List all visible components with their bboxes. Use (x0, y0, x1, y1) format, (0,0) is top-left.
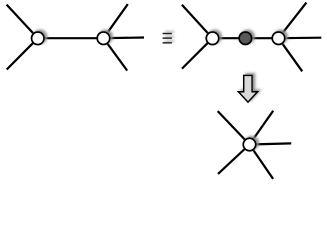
wire: right graph, node5 lower-right leg (279, 38, 303, 71)
node: left graph node2 (white vertex) (97, 32, 110, 45)
wire: right graph, node5 upper-right leg (279, 3, 307, 39)
block arrow pointing down (238, 75, 257, 102)
wire: left graph, edge between node1 and node2 (38, 37, 104, 39)
wire: right graph, node3 upper-left leg (182, 5, 213, 38)
wire: right graph, horizontal edges node3-node4-node5 (213, 37, 279, 39)
wire: left graph, node1 upper-left leg (7, 5, 38, 39)
wire: contracted star, lower-left leg (218, 145, 250, 174)
wire: right graph, node3 lower-left leg (182, 38, 213, 68)
node: right graph node3 (white vertex) (206, 32, 219, 45)
wire: right graph, node5 right horizontal leg (279, 37, 322, 40)
wire: left graph, node2 upper-right leg (104, 4, 128, 38)
node: right graph node4 (gray merged vertex) (239, 32, 252, 45)
wire: left graph, node2 right horizontal leg (104, 36, 145, 39)
wire: left graph, node1 lower-left leg (7, 38, 38, 69)
wire: contracted star, upper-right leg (250, 111, 274, 145)
node: left graph node1 (white vertex) (32, 32, 45, 45)
equivalence symbol ≡ (163, 33, 172, 44)
wire: contracted star, lower-right leg (250, 145, 274, 179)
node: contracted star center (white vertex) (243, 138, 256, 151)
wire: contracted star, right horizontal leg (250, 143, 292, 144)
wire: contracted star, upper-left leg (218, 111, 250, 144)
wire: left graph, node2 lower-right leg (104, 38, 128, 70)
node: right graph node5 (white vertex) (272, 32, 285, 45)
